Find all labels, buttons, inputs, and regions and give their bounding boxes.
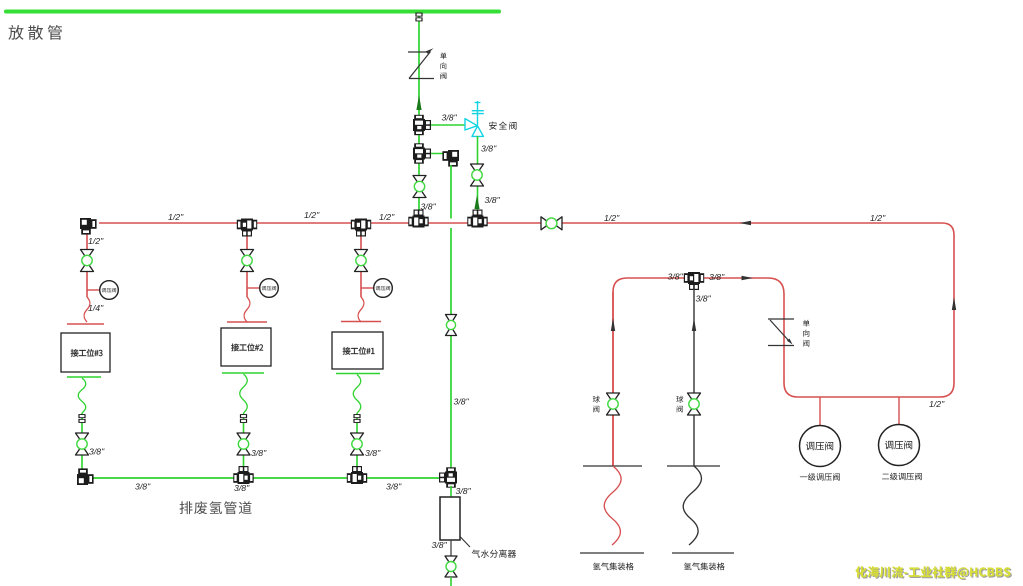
label 球阀 black (vertical): [676, 396, 683, 413]
svg-text:1/4": 1/4": [88, 303, 104, 313]
valve upper 接工位#3: [81, 250, 94, 272]
valve lower 接工位#2: [237, 433, 250, 455]
svg-text:1/2": 1/2": [870, 213, 886, 223]
label 氢气集装格 black: [684, 563, 725, 571]
elbow at main left end: [80, 218, 97, 235]
vent pipe header (thick green): [6, 10, 499, 14]
pipe: stub regulator 2: [898, 397, 900, 424]
pipe: into separator: [450, 486, 452, 498]
outlet bar 接工位#3: [67, 376, 101, 378]
pipe: gauge stub 接工位#1: [361, 287, 374, 289]
svg-text:1/2": 1/2": [604, 213, 620, 223]
svg-text:3/8": 3/8": [485, 195, 501, 205]
tee waste station2: [233, 466, 253, 484]
svg-text:3/8": 3/8": [442, 113, 458, 123]
tee waste to separator: [439, 467, 457, 487]
inlet bar 接工位#3: [67, 323, 104, 325]
coupling lower 接工位#1: [353, 414, 360, 423]
waste header pipe (green): [93, 477, 445, 479]
tee T3 on main (vent riser): [408, 210, 428, 228]
valve V2 on safety branch: [471, 164, 484, 186]
outlet bar 接工位#2: [222, 372, 264, 374]
valve V5 separator drain: [445, 556, 457, 577]
regulator PR1 circle: [800, 426, 841, 467]
rack bar black bottom: [672, 552, 734, 554]
hose squiggle upper 接工位#2: [244, 297, 250, 322]
svg-text:1/2": 1/2": [929, 399, 945, 409]
svg-text:3/8": 3/8": [481, 144, 497, 154]
coupling lower 接工位#3: [78, 414, 85, 423]
valve V3 on waste riser: [446, 315, 457, 336]
pipe: drain outlet: [450, 577, 452, 586]
rack bar red top: [583, 465, 642, 467]
svg-text:3/8": 3/8": [456, 486, 472, 496]
hose squiggle upper 接工位#1: [358, 297, 364, 322]
hose squiggle black rack: [683, 466, 701, 545]
svg-text:3/8": 3/8": [234, 483, 250, 493]
watermark text: [855, 566, 1010, 579]
svg-text:1/2": 1/2": [304, 210, 320, 220]
elbow waste header left end: [77, 468, 94, 485]
pipe: separator drain: [450, 540, 452, 557]
valve lower 接工位#3: [76, 433, 89, 455]
label 二级调压阀: [882, 473, 922, 481]
station box text 接工位#1: [343, 347, 375, 355]
pipe: station drop 接工位#1: [360, 232, 362, 297]
pipe: station drop 接工位#2: [246, 232, 248, 297]
svg-text:3/8": 3/8": [251, 448, 267, 458]
tee T5 on main (station2): [237, 219, 257, 237]
label 单向阀 (vertical): [440, 53, 446, 80]
station box 接工位#2: [221, 328, 271, 366]
tee T1 symbol: [413, 115, 431, 135]
pressure gauge 接工位#1: [374, 279, 393, 298]
pipe: stub regulator 1: [819, 397, 821, 426]
label 安全阀: [489, 122, 516, 130]
svg-text:1/2": 1/2": [88, 236, 104, 246]
station box text 接工位#3: [71, 349, 103, 357]
rack bar black top: [667, 465, 720, 467]
pipe: waste drop 接工位#3: [81, 413, 83, 470]
pressure gauge 接工位#2: [260, 279, 279, 298]
flow arrow up supply red: [611, 318, 615, 331]
flow arrow left on main: [740, 221, 752, 225]
ball valve supply red: [607, 393, 620, 415]
svg-text:1/2": 1/2": [379, 212, 395, 222]
tee T7 supply branch: [684, 272, 704, 290]
svg-text:1/2": 1/2": [168, 212, 184, 222]
regulator PR2 circle: [879, 425, 920, 466]
svg-text:3/8": 3/8": [432, 540, 448, 550]
pipe: waste drop 接工位#2: [243, 413, 245, 470]
svg-text:3/8": 3/8": [668, 272, 684, 282]
gas-water separator vessel: [440, 497, 460, 540]
ball valve supply black: [688, 393, 701, 415]
pipe: branch to safety valve: [428, 124, 465, 126]
inlet bar 接工位#1: [341, 321, 381, 323]
tee T2 symbol: [413, 143, 431, 163]
coupling lower 接工位#2: [240, 414, 247, 423]
safety valve SV1 (cyan): [465, 119, 477, 130]
svg-text:3/8": 3/8": [89, 447, 105, 457]
label 球阀 red (vertical): [593, 396, 600, 413]
hose squiggle upper 接工位#3: [84, 297, 90, 322]
tee T6 on main (station1): [351, 219, 371, 237]
pipe: gauge stub 接工位#2: [247, 287, 260, 289]
check valve CV1 (Z symbol): [408, 51, 430, 53]
label 氢气集装格 red: [593, 563, 634, 571]
svg-text:3/8": 3/8": [709, 272, 725, 282]
label 单向阀 right (vertical): [803, 320, 810, 347]
valve upper 接工位#2: [241, 250, 254, 272]
hose squiggle lower 接工位#1: [353, 375, 361, 414]
pipe: supply black riser: [693, 285, 695, 466]
pipe: waste riser (green) lower: [450, 228, 452, 468]
flow arrow up right riser: [952, 297, 956, 310]
pipe: supply red riser: [612, 292, 614, 466]
pipe: green riser to vent: [418, 13, 420, 214]
flow arrow up (vent riser): [416, 95, 421, 110]
svg-text:3/8": 3/8": [386, 482, 402, 492]
label 调压阀 PR2: [885, 441, 912, 450]
tee waste station1: [347, 466, 367, 484]
pipe: waste riser (green) upper: [450, 165, 452, 219]
rack bar red bottom: [580, 552, 644, 554]
valve upper 接工位#1: [355, 250, 368, 272]
pressure gauge 接工位#3: [100, 281, 119, 300]
valve V1 on vent riser: [413, 176, 426, 198]
pipe: safety valve outlet: [477, 136, 479, 213]
elbow to waste riser: [442, 150, 459, 167]
separator leader line: [460, 536, 471, 547]
label 一级调压阀: [800, 473, 840, 481]
main red header pipe: [99, 223, 954, 466]
svg-text:3/8": 3/8": [696, 294, 712, 304]
label 放散管: [8, 25, 62, 40]
svg-text:3/8": 3/8": [365, 448, 381, 458]
svg-text:3/8": 3/8": [454, 397, 470, 407]
flow arrow right on supply: [742, 276, 754, 280]
pipe: station drop 接工位#3: [86, 232, 88, 297]
inline ball valve V4 on main: [541, 217, 562, 230]
station box 接工位#3: [61, 333, 110, 372]
watermark shadow: [857, 567, 1012, 580]
label 气水分离器: [472, 550, 516, 558]
hose squiggle lower 接工位#3: [78, 378, 86, 413]
pipe: waste drop 接工位#1: [356, 413, 358, 470]
tee T4 on main (safety branch): [467, 210, 487, 228]
svg-text:3/8": 3/8": [135, 482, 151, 492]
hose squiggle lower 接工位#2: [240, 374, 248, 413]
station box 接工位#1: [332, 332, 383, 369]
flow arrow up supply black: [692, 318, 696, 331]
flow arrow up (safety branch): [474, 195, 479, 209]
pipe: branch to waste riser: [428, 153, 446, 155]
label 排废氢管道: [180, 501, 252, 514]
hose squiggle red rack: [604, 466, 621, 545]
valve lower 接工位#1: [351, 433, 364, 455]
check valve CV2 (Z symbol right): [768, 318, 794, 320]
coupling on vent riser: [415, 13, 422, 22]
label 调压阀 PR1: [806, 442, 833, 451]
station box text 接工位#2: [231, 344, 263, 352]
pipe: gauge stub 接工位#3: [87, 289, 100, 291]
inlet bar 接工位#2: [227, 321, 267, 323]
outlet bar 接工位#1: [336, 373, 380, 375]
